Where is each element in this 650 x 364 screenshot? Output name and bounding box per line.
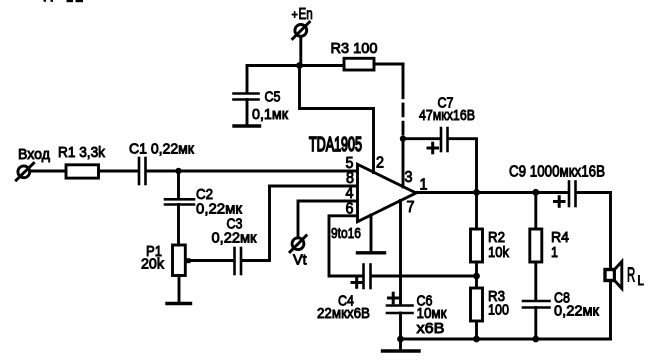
svg-text:7: 7 bbox=[407, 198, 415, 216]
wire node to C7 bbox=[403, 137, 440, 140]
svg-text:En: En bbox=[299, 5, 313, 22]
wire C9 to speaker bbox=[577, 193, 611, 271]
capacitor C3 bbox=[235, 248, 242, 274]
svg-text:0,22мк: 0,22мк bbox=[212, 230, 257, 246]
svg-text:22мкх6В: 22мкх6В bbox=[317, 305, 370, 322]
wire P1 wiper to C3 bbox=[191, 259, 234, 262]
node R2-R3 junction bbox=[473, 273, 480, 280]
speaker RL bbox=[605, 262, 622, 289]
terminal +En bbox=[293, 22, 310, 39]
svg-text:x6В: x6В bbox=[417, 321, 445, 337]
capacitor C1 bbox=[139, 158, 146, 184]
wire input to R1 bbox=[32, 170, 66, 173]
wire R4 to C8 bbox=[534, 262, 537, 300]
svg-text:9to16: 9to16 bbox=[331, 225, 361, 242]
wire C6 to ground node bbox=[399, 313, 402, 339]
capacitor C8 bbox=[523, 301, 550, 308]
capacitor C7 bbox=[441, 128, 448, 151]
capacitor C9 bbox=[569, 182, 576, 207]
svg-text:10k: 10k bbox=[488, 243, 510, 260]
svg-text:20k: 20k bbox=[141, 256, 165, 272]
svg-text:C5: C5 bbox=[265, 87, 281, 104]
svg-text:Вход: Вход bbox=[18, 147, 50, 163]
capacitor C6 bbox=[387, 306, 413, 314]
ground under op-amp bbox=[358, 215, 385, 253]
wire +En to supply junction bbox=[299, 38, 302, 66]
wire C4 to R2-R3 node bbox=[372, 275, 477, 278]
svg-text:2: 2 bbox=[376, 154, 384, 172]
svg-text:0,1мк: 0,1мк bbox=[252, 107, 289, 123]
wire pin 7 to C6 bbox=[399, 201, 402, 305]
label +En bbox=[292, 5, 313, 22]
potentiometer P1 bbox=[173, 245, 191, 276]
resistor R4 bbox=[530, 229, 542, 262]
capacitor C4 bbox=[364, 265, 371, 289]
cropped text at top edge bbox=[44, 0, 84, 2]
plus C9 bbox=[555, 197, 565, 207]
input terminal Вход bbox=[16, 163, 33, 180]
svg-text:+: + bbox=[292, 9, 299, 22]
plus C4 bbox=[352, 278, 362, 288]
resistor R2 bbox=[471, 229, 483, 262]
svg-text:R: R bbox=[627, 264, 635, 286]
wire R4 node to R4 bbox=[534, 192, 537, 229]
wire junction to C2 bbox=[177, 171, 180, 198]
svg-text:L: L bbox=[638, 273, 644, 288]
node C7 junction bbox=[400, 136, 406, 142]
wire output pin 1 bbox=[416, 191, 567, 194]
wire R3 to dashed drop bbox=[374, 63, 403, 66]
wire R3 to ground bus bbox=[475, 321, 478, 339]
ground P1 bbox=[167, 302, 191, 305]
svg-text:C3: C3 bbox=[227, 214, 243, 231]
wire pin 6 to C4 bbox=[329, 216, 362, 276]
svg-text:0,22мк: 0,22мк bbox=[554, 303, 599, 319]
svg-text:R1 3,3k: R1 3,3k bbox=[58, 144, 106, 161]
node output junction bbox=[473, 189, 480, 196]
resistor R3 bbox=[344, 58, 374, 70]
wire Vt to pin 4 bbox=[298, 201, 357, 237]
ground C5 bbox=[234, 124, 260, 127]
wire P1 to ground bbox=[178, 276, 181, 304]
wire speaker to ground bus bbox=[609, 280, 612, 339]
svg-text:3: 3 bbox=[405, 169, 413, 187]
wire C1 to pin 5 bbox=[147, 170, 357, 173]
wire R1 to C1 bbox=[99, 170, 138, 173]
resistor R3 100 lower bbox=[471, 288, 483, 321]
wire output node to R2 bbox=[475, 192, 478, 229]
node input junction bbox=[175, 168, 181, 174]
svg-text:100: 100 bbox=[488, 300, 509, 317]
wire pin 8 bbox=[270, 185, 357, 188]
svg-text:C1 0,22мк: C1 0,22мк bbox=[129, 141, 195, 158]
wire dashed segment R3 to node bbox=[402, 64, 405, 85]
wire supply bus bbox=[247, 64, 344, 67]
op-amp U1 TDA1905 bbox=[358, 164, 417, 221]
wire C2 to P1 bbox=[177, 205, 180, 246]
svg-text:R3 100: R3 100 bbox=[331, 41, 378, 57]
wire supply to C5 bbox=[246, 66, 249, 93]
wire pin 3 bbox=[402, 139, 405, 187]
wire C8 to ground bus bbox=[534, 308, 537, 340]
svg-text:C9 1000мкх16В: C9 1000мкх16В bbox=[509, 164, 605, 181]
resistor R1 bbox=[66, 165, 99, 178]
svg-text:TDA1905: TDA1905 bbox=[309, 133, 362, 156]
terminal Vt bbox=[290, 236, 306, 252]
svg-text:1: 1 bbox=[420, 176, 428, 194]
svg-text:47мкх16В: 47мкх16В bbox=[419, 107, 475, 123]
node R4 junction bbox=[532, 189, 539, 196]
wire C5 to ground bbox=[246, 100, 249, 125]
node R3 ground junction bbox=[473, 336, 480, 343]
wire ground bus bbox=[401, 338, 611, 341]
node supply junction bbox=[296, 62, 303, 69]
ground main bbox=[383, 339, 420, 351]
wire R2 to R3 bbox=[475, 262, 478, 288]
svg-text:Vt: Vt bbox=[293, 253, 307, 269]
plus C6 bbox=[389, 293, 399, 303]
node C8 ground junction bbox=[532, 336, 539, 343]
svg-text:1: 1 bbox=[551, 243, 558, 260]
capacitor C2 bbox=[165, 199, 194, 204]
capacitor C5 bbox=[234, 94, 259, 100]
wire supply junction to pin 2 bbox=[300, 66, 374, 173]
wire C3 to pin 8 riser bbox=[242, 186, 270, 261]
node ground junction bbox=[397, 336, 404, 343]
wire C7 to output node bbox=[449, 139, 477, 193]
plus C7 bbox=[428, 143, 438, 153]
